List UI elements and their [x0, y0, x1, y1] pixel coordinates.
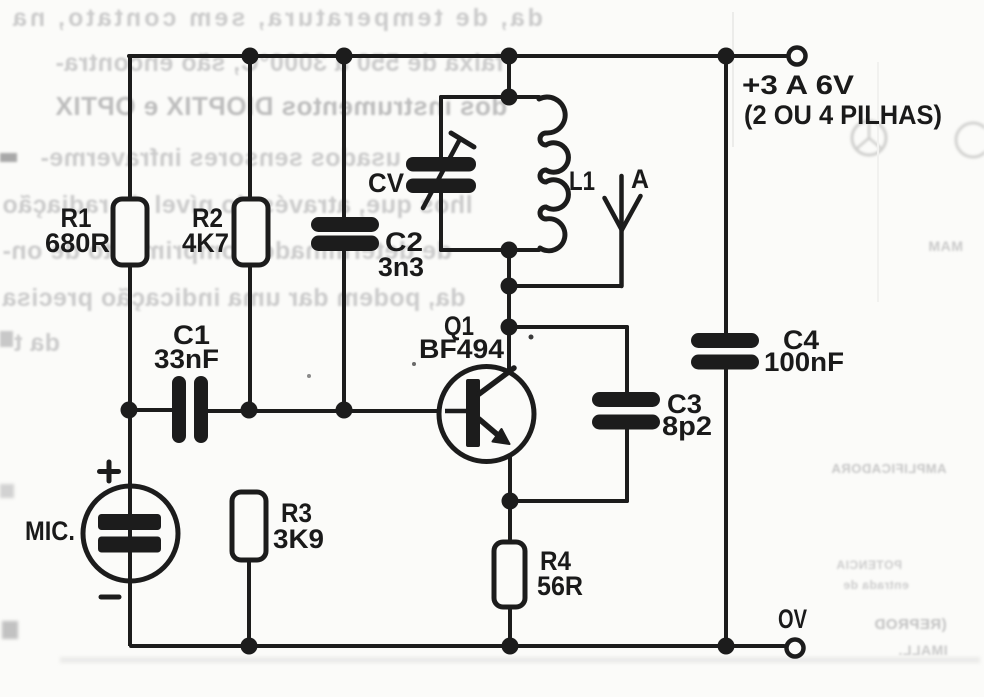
wire C1 to Q1 base	[208, 409, 464, 413]
wire R2 branch upper	[248, 56, 252, 200]
transistor Q1	[439, 367, 534, 462]
wire C2 branch upper	[342, 56, 346, 217]
wire R1 to node A	[128, 264, 132, 410]
node dot signal R2-R3	[241, 402, 258, 419]
node dot bottom rail R3	[241, 638, 258, 655]
wire node A to MIC	[128, 410, 132, 490]
wire C3 top horizontal	[509, 325, 627, 329]
antenna A	[605, 176, 641, 286]
wire C4 branch lower	[724, 369, 728, 646]
node dot signal left (node A)	[121, 402, 138, 419]
node dot top rail R2	[242, 48, 259, 65]
terminal 0V	[787, 640, 804, 657]
wire emitter to node	[508, 448, 512, 542]
inductor L1	[539, 97, 568, 251]
wire R3 lower	[247, 560, 251, 646]
wire C3 vertical lower	[625, 429, 629, 501]
wire C3 bottom horizontal	[510, 499, 627, 503]
faint fold lines	[732, 12, 734, 147]
resistor R4	[494, 542, 525, 607]
resistor R3	[232, 492, 266, 560]
wire C2 branch lower	[342, 251, 346, 410]
svg-text:+3 A 6V: +3 A 6V	[742, 70, 854, 100]
ink speck left of Q1 circle	[412, 362, 416, 366]
wire central collector branch upper	[507, 56, 511, 97]
capacitor C2 plates	[311, 217, 379, 251]
faint bleed circle right	[845, 118, 984, 178]
wire R2 to signal node	[248, 264, 252, 410]
terminal +3 A 6V	[789, 48, 806, 65]
wire bottom 0V rail	[131, 644, 784, 648]
resistor R2	[234, 199, 268, 265]
left edge marks	[0, 153, 17, 162]
node dot tank top	[501, 89, 518, 106]
node dot bottom rail R4	[502, 638, 519, 655]
node dot signal C2	[336, 402, 353, 419]
capacitor C3 plates	[592, 392, 660, 430]
wire antenna horizontal	[509, 284, 621, 288]
node dot tank bottom	[501, 242, 518, 259]
node dot top rail C2	[336, 48, 353, 65]
capacitor CV variable arrow	[423, 133, 474, 208]
node dot bottom rail C4	[718, 638, 735, 655]
wire top supply rail	[129, 54, 786, 58]
node dot top rail C4	[718, 48, 735, 65]
node dot top rail collector branch	[501, 48, 518, 65]
node dot antenna junction	[501, 278, 518, 295]
bottom scan streak	[60, 657, 980, 663]
svg-text:A: A	[631, 164, 649, 194]
svg-text:100nF: 100nF	[764, 347, 844, 377]
wire tank left side upper	[439, 97, 443, 158]
svg-text:BF494: BF494	[419, 334, 504, 364]
svg-text:MIC.: MIC.	[25, 516, 75, 546]
wire signal line node A to C1	[129, 408, 172, 412]
wire C4 branch upper	[724, 56, 728, 334]
MIC minus sign	[101, 595, 119, 600]
svg-text:4K7: 4K7	[182, 228, 229, 258]
svg-text:33nF: 33nF	[154, 344, 219, 374]
svg-text:680R: 680R	[45, 228, 110, 258]
wire tank bottom to collector	[507, 250, 511, 372]
wire R4 to bottom rail	[508, 607, 512, 646]
wire tank top	[441, 95, 539, 99]
ink speck below C1	[307, 374, 311, 378]
node dot C3 top junction	[501, 319, 518, 336]
svg-text:3n3: 3n3	[378, 252, 424, 282]
svg-text:OV: OV	[778, 604, 807, 634]
microphone MIC	[83, 486, 178, 646]
bleed-through mirrored text layer	[0, 0, 984, 2]
wire C3 left vertical upper	[625, 327, 629, 393]
ink speck near C3 wire	[529, 335, 534, 340]
wire tank bottom	[441, 248, 539, 252]
svg-text:3K9: 3K9	[273, 524, 324, 554]
capacitor CV plates	[406, 157, 476, 193]
svg-text:(2 OU 4 PILHAS): (2 OU 4 PILHAS)	[744, 100, 942, 130]
wire tank left side lower	[439, 192, 443, 250]
svg-text:CV: CV	[368, 168, 404, 198]
capacitor C4 plates	[691, 333, 759, 370]
resistor R1	[113, 199, 147, 265]
svg-text:56R: 56R	[537, 571, 583, 601]
wire R1 branch upper	[128, 56, 132, 200]
node dot emitter C3 junction	[502, 493, 519, 510]
MIC plus sign	[100, 462, 119, 481]
svg-text:8p2: 8p2	[662, 411, 712, 441]
capacitor C1 plates	[172, 376, 208, 443]
svg-text:L1: L1	[569, 166, 595, 196]
